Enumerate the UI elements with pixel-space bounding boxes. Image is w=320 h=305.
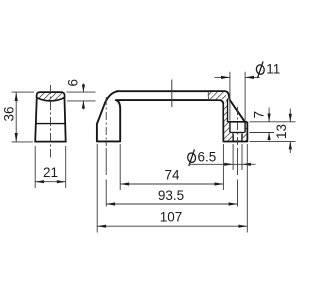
dim 36 extension lines [12,91,35,93]
counterbore hole phi11 walls [229,122,231,133]
svg-text:11: 11 [266,61,280,76]
dim 13 line and outside arrows [289,109,291,122]
svg-text:13: 13 [274,124,289,139]
svg-text:36: 36 [2,106,17,121]
counterbore chamfer diagonals [231,133,234,135]
dim phi6.5 text [187,150,216,167]
svg-text:107: 107 [160,210,183,225]
front view symmetry centerline [171,80,173,108]
right hole centerline [237,107,239,146]
dim 36 line and arrows [15,92,17,142]
dim 13 extension line C (foot bottom) [250,140,296,142]
section hatch bar band [209,92,228,99]
right leg rear silhouette line [226,99,228,122]
svg-text:7: 7 [252,111,267,119]
svg-text:21: 21 [43,165,58,180]
front view top bar top edge [116,90,226,92]
dim 7 line and outside arrows [268,108,270,122]
left view grip cross-section (hatched pill) [37,92,65,101]
dim 6 line and outside arrows [82,84,84,93]
dim phi11 line with outside arrows [215,76,230,78]
dim 21 extension lines [34,146,36,188]
left view body outline [35,99,65,141]
section hatch foot right [243,123,247,141]
svg-text:6.5: 6.5 [198,150,217,165]
dim 74 line and arrows [120,183,223,185]
dim 107 extension lines [96,144,98,233]
section hatch leg band [224,100,227,122]
dim 6 extension lines [67,91,96,93]
dim phi11 extension lines [229,72,231,121]
left hole centerline [105,97,107,146]
front view outer outline [97,91,247,141]
right foot top face line [227,121,247,123]
dim 107 line and arrows [97,225,247,227]
section hatch foot left [224,123,232,141]
dim 7/13 extension line A (foot top) [250,121,296,123]
section break line in bar [207,92,210,101]
svg-text:93.5: 93.5 [158,188,184,203]
phi6.5 hole wall extension lines below foot [232,144,234,170]
left view mid line [36,123,66,125]
svg-text:6: 6 [66,79,81,87]
dim phi11 text [256,61,281,78]
hole phi6.5 walls [232,134,234,142]
right outer corner to foot diagonal [230,100,245,122]
dim 21 line and arrows [35,181,65,183]
svg-text:74: 74 [164,168,180,183]
dim 74 extension lines [119,144,121,190]
dim 7 extension line B (step) [250,132,275,134]
dim 93.5 line and arrows [106,203,237,205]
phi6.5 leader line with inward arrows [189,163,256,165]
left view centerline [50,85,52,158]
counterbore step [230,132,245,134]
right outer corner arc [226,91,230,99]
